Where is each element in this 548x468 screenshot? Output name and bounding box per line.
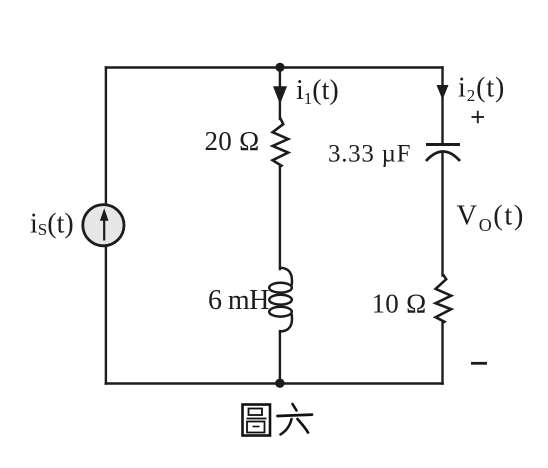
wire left lower: [105, 246, 107, 384]
caption glyph tu (figure): [243, 405, 271, 436]
current source is(t): [83, 205, 124, 246]
svg-text:i1(t): i1(t): [296, 75, 339, 108]
capacitor C1 3.33 uF: [426, 145, 460, 162]
label minus sign: [471, 362, 487, 365]
wire middle branch between resistor and inductor: [279, 166, 281, 269]
wire top horizontal: [106, 66, 443, 68]
wire right branch lower: [441, 322, 443, 384]
wire middle branch upper: [279, 68, 281, 120]
svg-text:iS(t): iS(t): [30, 209, 74, 240]
svg-text:i2(t): i2(t): [458, 73, 505, 106]
current arrow i1: [273, 86, 287, 104]
svg-text:VO(t): VO(t): [457, 201, 526, 235]
wire left upper: [105, 68, 107, 206]
node junction dot bottom: [275, 379, 284, 388]
resistor R1 20 ohm: [273, 118, 289, 167]
inductor L1 6 mH: [269, 268, 292, 332]
svg-text:6 mH: 6 mH: [208, 285, 269, 316]
node junction dot top: [275, 63, 284, 72]
wire right branch between capacitor and resistor: [441, 153, 443, 276]
wire right branch upper: [441, 68, 443, 144]
svg-text:10 Ω: 10 Ω: [372, 289, 427, 319]
caption glyph liu (six): [278, 404, 313, 435]
current arrow i2: [437, 85, 449, 100]
wire bottom horizontal: [106, 382, 443, 385]
label plus sign: [472, 111, 485, 123]
wire middle branch lower: [279, 331, 281, 384]
svg-text:20 Ω: 20 Ω: [205, 126, 260, 156]
svg-text:3.33 µF: 3.33 µF: [328, 141, 411, 168]
resistor R2 10 ohm: [436, 275, 452, 323]
